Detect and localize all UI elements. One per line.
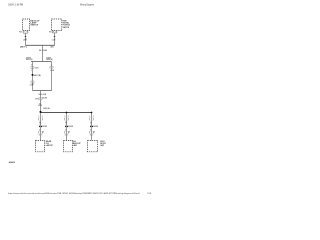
svg-text:https://www.vehicle-manuals.ne: https://www.vehicle-manuals.net/nissan/2… — [8, 192, 140, 195]
svg-text:SWITCH: SWITCH — [30, 25, 38, 27]
svg-text:S402 (B): S402 (B) — [43, 107, 50, 110]
svg-text:(M/T): (M/T) — [20, 47, 28, 49]
svg-text:24 LG/B: 24 LG/B — [39, 93, 47, 96]
svg-text:M77: M77 — [35, 99, 38, 101]
svg-text:Wiring Diagram: Wiring Diagram — [80, 4, 94, 7]
svg-text:2: 2 — [31, 64, 32, 66]
svg-text:LAMP UNIT: LAMP UNIT — [46, 144, 54, 147]
svg-text:F52: F52 — [19, 32, 22, 34]
svg-text:SWITCH: SWITCH — [63, 27, 70, 29]
svg-text:F51: F51 — [49, 31, 52, 33]
svg-text:LAMP: LAMP — [73, 144, 77, 147]
svg-text:24 LG/B: 24 LG/B — [39, 49, 48, 52]
svg-text:B1 (W): B1 (W) — [42, 98, 47, 100]
svg-text:LAMP: LAMP — [100, 144, 104, 147]
svg-text:1/8/24, 1:08 PM: 1/8/24, 1:08 PM — [8, 4, 23, 7]
svg-text:S401 (B): S401 (B) — [34, 74, 42, 77]
svg-text:(A/T): (A/T) — [50, 46, 54, 49]
svg-text:1: 1 — [31, 70, 32, 72]
